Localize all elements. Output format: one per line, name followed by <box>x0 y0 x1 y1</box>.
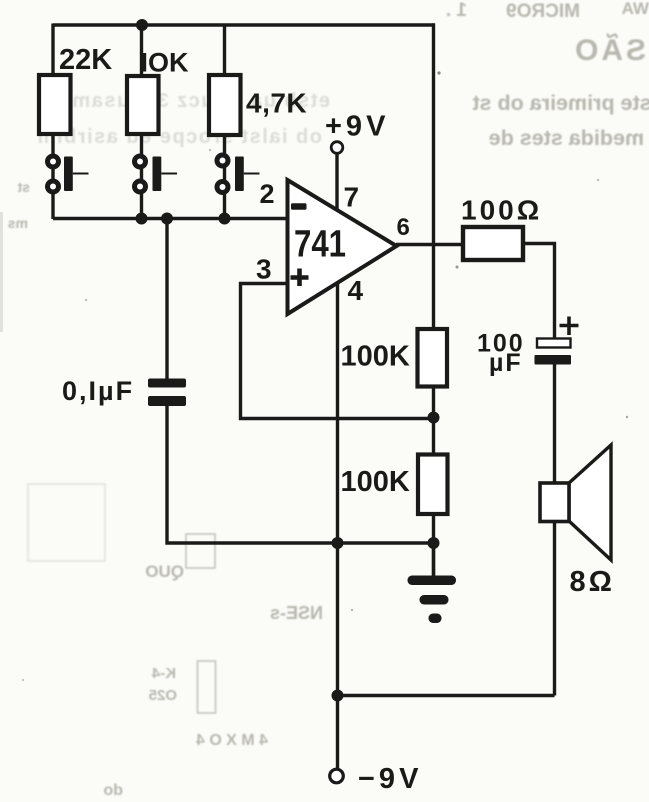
svg-text:ob ialst srocpe ed asirbim: ob ialst srocpe ed asirbim <box>36 126 322 148</box>
svg-text:Este primeira ob st: Este primeira ob st <box>472 91 649 115</box>
svg-text:O25: O25 <box>149 687 177 704</box>
svg-text:MICRO9: MICRO9 <box>506 1 580 22</box>
svg-text:4 M X O 4: 4 M X O 4 <box>196 732 268 749</box>
svg-text:IOK: IOK <box>141 48 190 78</box>
svg-text:2: 2 <box>260 179 275 209</box>
svg-text:7: 7 <box>344 182 360 213</box>
svg-text:0,IµF: 0,IµF <box>62 376 134 406</box>
svg-text:st: st <box>17 179 30 195</box>
svg-text:100K: 100K <box>341 341 410 373</box>
svg-text:WA: WA <box>622 0 649 18</box>
svg-text:4: 4 <box>348 275 364 306</box>
svg-text:8Ω: 8Ω <box>570 566 615 598</box>
svg-text:do: do <box>103 782 123 799</box>
svg-text:100Ω: 100Ω <box>461 195 542 226</box>
svg-text:741: 741 <box>294 224 346 266</box>
svg-text:−9V: −9V <box>358 763 422 795</box>
svg-text:µF: µF <box>489 349 523 377</box>
svg-text:SÃO: SÃO <box>572 33 646 67</box>
svg-text:6: 6 <box>397 214 410 241</box>
svg-text:100K: 100K <box>341 466 410 498</box>
svg-text:NSE-s: NSE-s <box>270 603 323 623</box>
svg-text:3: 3 <box>256 254 272 285</box>
svg-text:4,7K: 4,7K <box>246 88 307 119</box>
svg-text:a medida stes de: a medida stes de <box>489 126 649 150</box>
svg-text:22K: 22K <box>59 44 112 76</box>
svg-text:K-4: K-4 <box>151 665 176 682</box>
svg-text:QUO: QUO <box>145 562 184 581</box>
svg-text:+9V: +9V <box>325 111 389 143</box>
svg-text:1 .: 1 . <box>446 0 467 21</box>
svg-text:ms: ms <box>8 215 28 231</box>
